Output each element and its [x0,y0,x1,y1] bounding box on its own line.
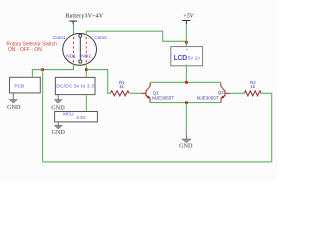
svg-text:Com1: Com1 [53,35,66,40]
svg-text:3.3V: 3.3V [76,115,85,120]
svg-text:Q2: Q2 [218,90,225,95]
junction LCD plus node [185,41,188,44]
svg-text:1k: 1k [119,84,125,89]
svg-text:Battery3V~4V: Battery3V~4V [66,13,104,19]
ground emitter [179,134,193,149]
switch pin top [79,34,82,37]
svg-text:+5V: +5V [183,13,195,19]
ground under DC/DC [51,95,65,112]
wire LCD to collector bus [185,66,187,83]
ground under MCU [52,122,66,136]
resistor R1 [110,80,129,96]
wire Q2 base to R2 [230,92,244,94]
switch pin bottom [79,60,82,63]
pole 2 dashed contact [85,37,87,63]
emitter bus wire [150,102,221,104]
wire bottom bus [43,161,272,163]
svg-text:GND: GND [52,129,66,136]
svg-text:1k: 1k [250,84,256,89]
+5V supply pin [182,21,190,25]
svg-text:GND: GND [179,143,193,150]
wire R2 to right vertical [261,92,272,94]
svg-text:ON - OFF - ON: ON - OFF - ON [8,47,42,53]
svg-text:GND: GND [51,104,65,111]
svg-text:MJE3055T: MJE3055T [197,95,219,100]
wire battery to Com1 [73,24,75,35]
svg-text:MCU: MCU [63,112,73,117]
junction emitter bus [185,101,188,104]
wire bus to R1 [86,70,110,94]
svg-text:DC/DC 5v to 3.3: DC/DC 5v to 3.3 [56,84,94,89]
ground under PCB [7,93,21,111]
junction collector bus [185,81,188,84]
wire R1 to Q1 base [130,92,141,94]
battery supply pin [69,21,77,24]
wire right vertical up to R2 [271,93,273,162]
svg-text:+: + [186,47,189,52]
LCD box [171,47,203,68]
wire long vertical down [42,70,44,162]
pole 1 dashed contact [73,37,75,63]
collector bus wire [150,81,220,83]
svg-text:NO1: NO1 [66,53,76,58]
svg-text:PCB: PCB [14,83,24,89]
rotary switch body circle [63,34,97,66]
switch actuator bar [79,37,81,61]
DC/DC converter box [55,77,95,94]
wire NO2 down to DC/DC [85,64,87,78]
svg-text:NO2: NO2 [81,53,91,58]
wire +5V down to LCD node [185,24,187,42]
wire NO1 to left bus and PCB [32,64,73,78]
wire DC/DC to MCU [85,95,87,112]
wire Com2 to LCD node [86,31,186,41]
junction NO2 bus [85,68,88,71]
wire node to LCD [185,42,187,47]
wire emitter bus to GND [185,103,187,135]
transistor Q1 MJE3055T [141,83,150,103]
transistor Q2 MJE3055T [221,83,230,103]
svg-text:Com2: Com2 [94,35,107,40]
svg-text:GND: GND [7,104,21,111]
junction left bus [41,68,44,71]
PCB box [10,77,41,93]
resistor R2 [244,80,261,96]
svg-text:5V 2A: 5V 2A [188,55,200,60]
MCU box [55,112,98,122]
svg-text:MJE3055T: MJE3055T [152,95,174,100]
